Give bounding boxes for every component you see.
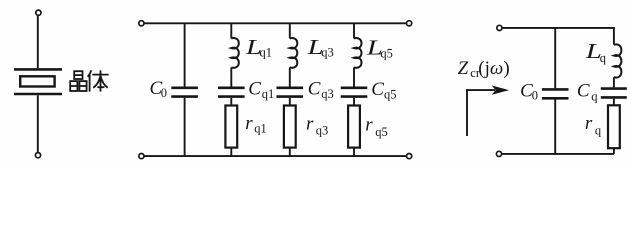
terminal right top <box>497 25 502 30</box>
wire branch q5 bottom <box>353 148 355 157</box>
wire branch q1 bottom <box>230 148 232 157</box>
svg-text:C: C <box>248 78 261 99</box>
inductor Lq5 <box>354 38 362 68</box>
svg-text:q3: q3 <box>316 123 329 137</box>
wire middle bottom rail <box>145 155 407 157</box>
crystal Y1 bottom terminal <box>35 153 40 158</box>
terminal middle bottom-right <box>407 154 412 159</box>
wire branch q3 mid1 <box>289 67 291 86</box>
label crystal 晶体 <box>70 70 108 91</box>
capacitor C0 right <box>542 89 569 98</box>
wire right C0 branch lower <box>554 100 556 154</box>
terminal middle bottom-left <box>139 154 144 159</box>
capacitor Cq5 <box>341 88 368 97</box>
svg-text:C: C <box>577 81 590 102</box>
wire branch q1 mid1 <box>230 67 232 86</box>
crystal Y1 bottom plate <box>14 93 62 96</box>
impedance arrow Zcr <box>466 86 509 137</box>
capacitor Cq1 <box>218 88 245 97</box>
svg-text:q: q <box>595 124 602 138</box>
wire branch q3 bottom <box>289 148 291 157</box>
svg-text:q3: q3 <box>321 45 334 59</box>
wire right top rail <box>502 28 614 45</box>
svg-text:q1: q1 <box>262 87 275 101</box>
wire crystal top lead <box>37 16 39 68</box>
svg-text:Z: Z <box>458 58 469 79</box>
inductor Lq1 <box>231 38 239 68</box>
wire C0 branch lower <box>184 98 186 156</box>
resistor rq3 <box>284 106 296 148</box>
svg-text:q: q <box>591 90 598 104</box>
svg-text:r: r <box>585 113 593 134</box>
svg-text:0: 0 <box>532 88 538 102</box>
wire right branch mid1 <box>613 77 615 87</box>
svg-text:q1: q1 <box>260 45 273 59</box>
wire right branch mid2 <box>613 99 615 106</box>
inductor Lq <box>614 44 622 77</box>
svg-text:q: q <box>600 51 607 65</box>
wire middle top rail <box>145 22 407 24</box>
wire C0 branch upper <box>184 23 186 86</box>
resistor rq <box>608 105 620 148</box>
svg-text:(jω): (jω) <box>478 58 509 79</box>
crystal Y1 body <box>20 76 54 86</box>
svg-text:r: r <box>306 114 314 135</box>
wire branch q1 mid2 <box>230 98 232 106</box>
resistor rq5 <box>348 106 360 148</box>
inductor Lq3 <box>290 38 298 68</box>
capacitor Cq3 <box>277 88 304 97</box>
wire right bottom rail <box>502 153 614 155</box>
svg-text:0: 0 <box>161 86 167 100</box>
wire crystal bottom lead <box>37 95 39 152</box>
terminal right bottom <box>496 151 501 156</box>
wire branch q5 mid2 <box>353 98 355 106</box>
wire right branch bottom <box>613 148 615 154</box>
capacitor Cq <box>601 89 627 98</box>
svg-text:q3: q3 <box>321 87 334 101</box>
svg-text:q1: q1 <box>254 122 266 136</box>
wire right C0 branch upper <box>554 28 556 88</box>
crystal Y1 top terminal <box>36 10 41 15</box>
terminal middle top-left <box>139 21 144 26</box>
capacitor C0 <box>171 88 198 97</box>
svg-text:q5: q5 <box>380 46 393 60</box>
svg-text:C: C <box>371 79 384 100</box>
crystal Y1 top plate <box>14 68 62 71</box>
wire branch q5 mid1 <box>353 67 355 86</box>
svg-text:q5: q5 <box>384 88 397 102</box>
wire branch q3 mid2 <box>289 98 291 106</box>
svg-text:q5: q5 <box>375 125 388 139</box>
svg-text:r: r <box>245 113 253 134</box>
resistor rq1 <box>225 106 237 148</box>
wire branch q3 top <box>289 23 291 38</box>
wire branch q5 top <box>353 23 355 38</box>
wire branch q1 top <box>230 23 232 38</box>
svg-text:C: C <box>308 78 321 99</box>
svg-text:r: r <box>365 115 373 136</box>
terminal middle top-right <box>407 21 412 26</box>
